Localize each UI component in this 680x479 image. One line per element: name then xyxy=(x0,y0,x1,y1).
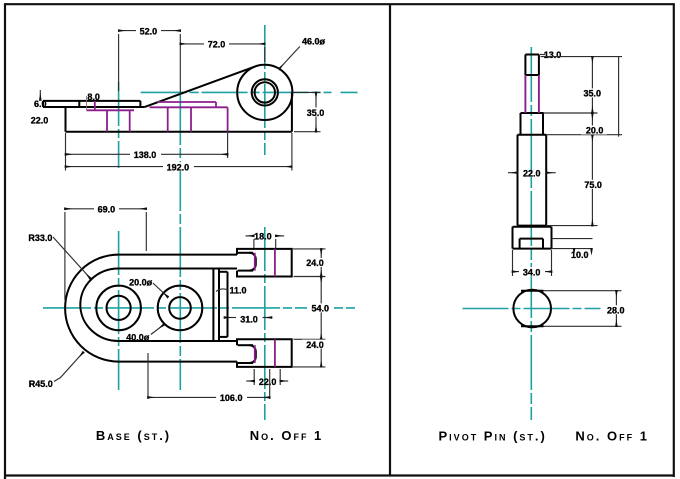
boss hole outer circle xyxy=(252,79,278,105)
leader 11.0 xyxy=(216,289,228,292)
svg-text:138.0: 138.0 xyxy=(134,150,157,160)
svg-text:46.0ø: 46.0ø xyxy=(302,37,326,47)
centerline pin end view horizontal xyxy=(463,308,601,310)
pin neck right edge xyxy=(542,113,544,135)
pin end view flat bottom xyxy=(521,325,544,327)
pin neck left edge xyxy=(520,113,522,135)
bottom prong outline xyxy=(237,339,292,367)
bottom prong slot end arc xyxy=(250,345,256,363)
dimension 35.0 xyxy=(293,92,321,131)
dimension 52.0 xyxy=(119,31,181,95)
svg-text:31.0: 31.0 xyxy=(240,315,258,325)
svg-text:22.0: 22.0 xyxy=(259,377,277,387)
R45 outer arc xyxy=(65,255,119,362)
svg-text:10.0: 10.0 xyxy=(571,250,589,260)
plan outer top edge xyxy=(119,254,237,256)
web line 2 xyxy=(218,269,220,342)
hidden v line x=94.8 xyxy=(94,101,96,110)
dimension 8.0 xyxy=(86,96,88,111)
body bottom edge xyxy=(66,131,292,133)
dimension 192.0 xyxy=(66,133,292,171)
svg-text:75.0: 75.0 xyxy=(584,180,602,190)
top prong slot lip bottom xyxy=(238,270,254,272)
top prong outline xyxy=(237,249,292,277)
side view outline xyxy=(43,65,292,132)
svg-text:24.0: 24.0 xyxy=(306,340,324,350)
centerline plan fork axis xyxy=(264,227,266,420)
centerline big-hole axis (side view) xyxy=(118,82,120,168)
plate top edge xyxy=(43,100,140,102)
plan inner bottom edge xyxy=(119,340,237,342)
dimension 13.0 xyxy=(540,54,545,56)
dimension 6.0 xyxy=(39,90,41,100)
svg-text:24.0: 24.0 xyxy=(306,258,324,268)
centerline plan horizontal xyxy=(43,307,356,309)
leader R45.0 xyxy=(54,352,83,381)
bottom prong slot lip bottom xyxy=(238,362,254,364)
svg-text:18.0: 18.0 xyxy=(254,232,272,242)
pin shaft right edge xyxy=(545,135,547,226)
dimension 69.0 xyxy=(65,209,146,300)
pin end view circle xyxy=(513,290,551,328)
svg-text:35.0: 35.0 xyxy=(584,89,602,99)
centerline boss horizontal (side view) xyxy=(141,91,332,93)
pin shoulder 1 xyxy=(521,112,544,114)
svg-text:8.0: 8.0 xyxy=(87,92,100,102)
dimension 22.0 (plan) xyxy=(246,369,288,385)
dimension 106.0 xyxy=(148,353,270,399)
hidden thread right xyxy=(538,75,540,113)
pin thread step xyxy=(525,74,539,76)
plate step edge xyxy=(78,101,80,107)
pin shaft base shoulder xyxy=(518,225,547,227)
body top edge xyxy=(43,106,145,108)
svg-text:192.0: 192.0 xyxy=(167,162,190,172)
dimensions 35.0 / 20.0 / 75.0 stack xyxy=(541,57,623,226)
leader 20.0 dia xyxy=(153,283,168,297)
big hole outer circle xyxy=(96,286,141,331)
centerline pin axis xyxy=(530,47,532,420)
hidden thread left xyxy=(524,75,526,113)
plate right edge xyxy=(139,101,141,107)
dimension 31.0 xyxy=(225,317,272,319)
top prong slot end arc xyxy=(250,253,256,271)
R33 inner arc xyxy=(80,269,118,342)
centerline boss axis (side view) xyxy=(264,25,266,155)
body left edge xyxy=(65,107,67,132)
svg-text:6.0: 6.0 xyxy=(34,99,47,109)
svg-text:69.0: 69.0 xyxy=(98,205,116,215)
hidden hole edge bottom prong left xyxy=(254,345,256,363)
svg-text:No. Off 1: No. Off 1 xyxy=(575,429,649,444)
svg-text:11.0: 11.0 xyxy=(229,285,246,295)
web top joint xyxy=(219,271,228,273)
svg-text:13.0: 13.0 xyxy=(544,50,562,60)
hidden dropper x=107 xyxy=(106,110,108,131)
pin shoulder 2 xyxy=(518,134,547,136)
dimensions 24.0 / 54.0 / 24.0 xyxy=(293,249,326,367)
hidden shelf y=110.3 xyxy=(87,109,134,111)
svg-text:R33.0: R33.0 xyxy=(28,233,52,243)
flange top edge xyxy=(513,226,552,228)
leader 46.0 dia xyxy=(279,47,300,70)
hidden slot bottom y=107.3 xyxy=(150,106,228,108)
pin shaft left edge xyxy=(517,135,519,226)
hidden lines (side view) xyxy=(87,101,228,132)
hidden thread lines (pin) xyxy=(525,75,539,113)
centerline plan big hole xyxy=(118,231,120,390)
flange right edge xyxy=(551,227,553,249)
hidden slot top y=102 xyxy=(157,101,216,103)
pin tip top edge xyxy=(525,54,539,56)
svg-text:No. Off 1: No. Off 1 xyxy=(250,428,324,443)
hidden hole edge top prong left xyxy=(254,253,256,271)
hidden dropper x=191 xyxy=(190,107,192,131)
hidden lines (plan prongs) xyxy=(255,249,275,367)
web line 1 xyxy=(212,269,214,342)
leader 40.0 dia xyxy=(151,325,164,335)
boss hole inner circle xyxy=(255,82,275,102)
centerline small-hole axis (long, links side view to plan view) xyxy=(179,95,181,390)
svg-text:Pivot Pin (st.): Pivot Pin (st.) xyxy=(439,429,547,444)
web line 3 xyxy=(227,272,229,337)
plan inner top edge xyxy=(119,268,237,270)
hidden step x=216 xyxy=(215,102,217,107)
tangent rib edge xyxy=(145,66,256,107)
svg-text:106.0: 106.0 xyxy=(220,393,243,403)
hidden hole edge top prong right xyxy=(274,249,276,277)
dimension 10.0 xyxy=(552,239,593,253)
leader R33.0 xyxy=(53,237,90,278)
body right edge xyxy=(291,92,293,131)
dimension 34.0 xyxy=(513,250,552,276)
svg-text:Base (st.): Base (st.) xyxy=(96,428,171,443)
flange recess left xyxy=(519,239,521,249)
small hole inner circle xyxy=(169,297,191,319)
top prong slot lip top xyxy=(238,252,254,254)
dimension 138.0 xyxy=(66,133,228,171)
svg-text:22.0: 22.0 xyxy=(523,169,541,179)
svg-text:20.0: 20.0 xyxy=(586,126,604,136)
hidden dropper x=167.7 xyxy=(167,107,169,131)
svg-text:R45.0: R45.0 xyxy=(29,379,53,389)
flange recess right xyxy=(542,239,544,249)
hidden dropper x=227.6 xyxy=(227,107,229,131)
web bottom joint xyxy=(219,336,228,338)
svg-text:20.0ø: 20.0ø xyxy=(129,278,153,288)
hidden dropper x=129.7 xyxy=(129,110,131,131)
svg-text:72.0: 72.0 xyxy=(208,40,226,50)
dimension 22.0 (pin shaft) xyxy=(508,172,556,174)
hidden hole edge bottom prong right xyxy=(274,339,276,367)
small hole outer circle xyxy=(158,286,203,331)
dimension 72.0 xyxy=(180,44,264,62)
flange recess top xyxy=(520,238,543,240)
svg-text:54.0: 54.0 xyxy=(312,304,330,314)
svg-text:22.0: 22.0 xyxy=(31,115,49,125)
svg-text:28.0: 28.0 xyxy=(607,305,625,315)
dimension 28.0 xyxy=(544,291,622,327)
pin tip left edge xyxy=(524,55,526,76)
bottom prong slot lip top xyxy=(238,344,254,346)
dimension 18.0 xyxy=(246,236,285,248)
svg-text:35.0: 35.0 xyxy=(307,108,325,118)
plate left edge xyxy=(42,101,44,107)
plan outer bottom edge xyxy=(119,361,237,363)
boss circle xyxy=(237,65,292,120)
svg-text:40.0ø: 40.0ø xyxy=(126,332,150,342)
pin end view flat top xyxy=(521,290,544,292)
flange bottom edge xyxy=(513,248,552,250)
svg-text:52.0: 52.0 xyxy=(140,26,158,36)
big hole inner circle xyxy=(107,296,131,320)
flange left edge xyxy=(512,227,514,249)
svg-text:34.0: 34.0 xyxy=(523,267,541,277)
pin tip right edge xyxy=(538,55,540,76)
plan outline xyxy=(65,249,292,367)
pin front view xyxy=(513,55,552,249)
